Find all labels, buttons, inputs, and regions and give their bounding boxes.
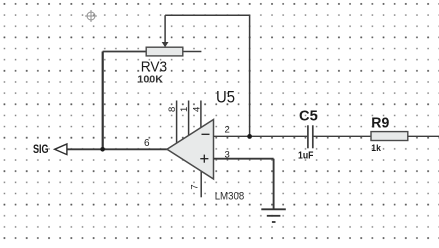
origin marker (85, 10, 97, 22)
wire: SIG to op-amp input (67, 148, 168, 150)
potentiometer RV3 (146, 47, 183, 56)
wiper arrowhead (162, 42, 169, 47)
svg-text:7: 7 (189, 184, 200, 189)
svg-text:4: 4 (192, 107, 203, 112)
wire: pin 2 to C5 (214, 135, 308, 137)
plus symbol (200, 155, 208, 163)
wire: feedback right vertical down to pin 2 node (249, 15, 251, 136)
wire: feedback top horizontal (165, 14, 250, 16)
svg-text:RV3: RV3 (141, 59, 167, 75)
wire: left feedback vertical (102, 52, 104, 150)
minus symbol (202, 133, 210, 135)
wire: pin 3 down to ground (273, 159, 275, 210)
svg-text:C5: C5 (299, 108, 318, 124)
wire: RV3 wiper drop (164, 15, 166, 43)
svg-text:R9: R9 (371, 115, 389, 131)
svg-text:3: 3 (225, 149, 230, 160)
svg-text:1k: 1k (371, 143, 381, 153)
wire: pin 3 horizontal (214, 158, 274, 160)
port SIG arrow (55, 144, 67, 155)
svg-text:8: 8 (167, 107, 178, 112)
svg-text:1: 1 (179, 107, 190, 112)
svg-text:SIG: SIG (33, 144, 49, 156)
svg-text:LM308: LM308 (215, 191, 245, 203)
wire: R9 to edge (408, 135, 439, 137)
svg-text:2: 2 (225, 125, 230, 136)
pin 7 line (200, 170, 202, 197)
svg-text:U5: U5 (216, 88, 235, 107)
junction node on SIG wire (100, 147, 105, 152)
ground (261, 209, 286, 222)
svg-text:1uF: 1uF (298, 151, 313, 162)
svg-text:100K: 100K (137, 74, 163, 85)
pin 1 line (188, 101, 190, 138)
junction node at pin 2 (247, 134, 252, 139)
wire: RV3 right stub (183, 51, 202, 53)
pin 4 line (200, 101, 202, 130)
svg-text:6: 6 (144, 138, 150, 149)
pin 8 line (176, 101, 178, 145)
op-amp U5 triangle (167, 120, 214, 180)
wire: C5 to R9 (314, 135, 372, 137)
capacitor C5 (308, 125, 313, 148)
wire: RV3 left lead (103, 51, 147, 53)
resistor R9 (371, 132, 408, 141)
